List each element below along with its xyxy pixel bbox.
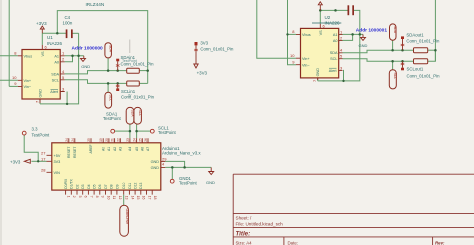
svg-text:A7: A7	[146, 147, 150, 151]
svg-text:25: 25	[138, 138, 142, 142]
svg-text:Vin−: Vin−	[302, 64, 310, 68]
svg-text:Vbus: Vbus	[24, 54, 33, 58]
svg-text:Conn_01x01_Pin: Conn_01x01_Pin	[121, 94, 155, 99]
svg-text:SDA: SDA	[393, 26, 397, 34]
svg-text:22: 22	[116, 138, 120, 142]
svg-text:Addr 1000000: Addr 1000000	[72, 45, 104, 51]
svg-text:Title:: Title:	[236, 230, 251, 237]
svg-text:5: 5	[78, 196, 82, 198]
svg-text:D3: D3	[81, 184, 85, 188]
svg-text:14: 14	[130, 196, 134, 200]
svg-text:Conn_01x01_Pin: Conn_01x01_Pin	[200, 47, 234, 52]
svg-text:SCLout1: SCLout1	[407, 66, 424, 71]
svg-text:SDA: SDA	[109, 45, 113, 53]
svg-text:A5: A5	[135, 147, 139, 151]
svg-text:A0: A0	[101, 147, 105, 151]
svg-text:TestPoint: TestPoint	[103, 116, 121, 121]
svg-text:17: 17	[41, 156, 46, 161]
svg-text:GND: GND	[81, 64, 90, 69]
svg-text:A1: A1	[333, 33, 338, 37]
svg-text:Vin+: Vin+	[24, 79, 32, 83]
svg-text:10: 10	[12, 75, 17, 80]
svg-text:TestPoint: TestPoint	[158, 130, 176, 135]
svg-text:D2: D2	[75, 184, 79, 188]
svg-text:D10: D10	[122, 182, 126, 188]
svg-text:SCL: SCL	[330, 57, 337, 61]
svg-text:C4: C4	[65, 15, 71, 20]
svg-text:23: 23	[126, 138, 130, 142]
svg-text:D0/RX: D0/RX	[64, 178, 68, 189]
svg-text:SDA: SDA	[51, 73, 59, 77]
svg-text:Conn_01x01_Pin: Conn_01x01_Pin	[407, 74, 441, 79]
svg-text:SDA: SDA	[330, 51, 338, 55]
svg-text:16: 16	[142, 196, 146, 200]
svg-text:GND: GND	[151, 166, 160, 170]
svg-text:Conn_01x01_Pin: Conn_01x01_Pin	[121, 61, 155, 66]
svg-text:D9: D9	[115, 184, 119, 188]
svg-text:A6: A6	[141, 147, 145, 151]
svg-text:VS: VS	[319, 30, 323, 36]
svg-text:SCL: SCL	[393, 73, 397, 80]
svg-text:D11: D11	[128, 183, 132, 189]
svg-text:+3V3: +3V3	[10, 159, 21, 164]
svg-text:D1/TX: D1/TX	[70, 178, 74, 188]
svg-text:12: 12	[118, 196, 122, 200]
svg-text:U2: U2	[325, 15, 331, 20]
svg-text:18: 18	[153, 196, 157, 200]
svg-text:Vin+: Vin+	[302, 57, 310, 61]
svg-text:24: 24	[133, 138, 137, 142]
svg-text:100n: 100n	[63, 20, 73, 25]
svg-text:Vbus: Vbus	[302, 33, 311, 37]
svg-text:D5: D5	[93, 184, 97, 188]
svg-text:24: 24	[71, 138, 75, 142]
svg-text:2: 2	[72, 196, 76, 198]
svg-text:TestPoint: TestPoint	[179, 181, 197, 186]
svg-text:Conn_01x01_Pin: Conn_01x01_Pin	[406, 39, 440, 44]
svg-text:A0: A0	[54, 61, 59, 65]
svg-text:A1: A1	[107, 147, 111, 151]
svg-text:26: 26	[144, 138, 148, 142]
svg-text:Vin−: Vin−	[24, 85, 32, 89]
svg-text:3.3: 3.3	[32, 126, 39, 131]
svg-text:24: 24	[65, 138, 69, 142]
svg-text:D13: D13	[139, 182, 143, 188]
svg-text:A1: A1	[54, 55, 59, 59]
svg-text:25: 25	[87, 138, 91, 142]
svg-text:VIN: VIN	[54, 171, 61, 175]
svg-text:IRLZ44N: IRLZ44N	[86, 2, 105, 7]
svg-text:7: 7	[89, 196, 93, 198]
svg-text:GND: GND	[359, 43, 368, 48]
svg-text:13: 13	[125, 196, 129, 200]
svg-text:Rev:: Rev:	[435, 240, 445, 245]
svg-text:28: 28	[41, 167, 46, 172]
svg-text:SCL: SCL	[109, 95, 113, 102]
svg-text:D7: D7	[104, 184, 108, 188]
svg-text:15: 15	[136, 196, 140, 200]
svg-text:INA226: INA226	[47, 41, 63, 46]
svg-text:10: 10	[290, 53, 295, 58]
svg-text:GND: GND	[206, 180, 215, 185]
svg-text:Sheet: /: Sheet: /	[236, 215, 253, 220]
svg-text:3V3: 3V3	[200, 41, 208, 46]
svg-text:27: 27	[41, 150, 46, 155]
svg-text:+3V3: +3V3	[197, 70, 208, 75]
svg-text:11: 11	[112, 196, 116, 200]
svg-text:+3V3: +3V3	[36, 21, 47, 26]
svg-text:GND: GND	[151, 160, 160, 164]
svg-text:A0: A0	[333, 39, 338, 43]
svg-text:8: 8	[95, 196, 99, 198]
svg-text:File: Untitled.kicad_sch: File: Untitled.kicad_sch	[236, 222, 284, 227]
svg-text:D12: D12	[134, 182, 138, 188]
svg-text:3V3: 3V3	[54, 160, 61, 164]
svg-text:GateDrive: GateDrive	[125, 209, 129, 225]
svg-text:SDAout1: SDAout1	[406, 32, 424, 37]
svg-text:A4: A4	[128, 147, 132, 151]
svg-text:+5V: +5V	[54, 154, 61, 158]
svg-text:VS: VS	[41, 51, 45, 57]
svg-text:SCL: SCL	[138, 110, 142, 117]
svg-text:RESET: RESET	[67, 147, 71, 158]
svg-text:U1: U1	[47, 35, 53, 40]
svg-text:Arduino_Nano_v3.x: Arduino_Nano_v3.x	[162, 151, 201, 156]
svg-text:Size: A4: Size: A4	[236, 240, 253, 245]
svg-text:GND: GND	[316, 68, 320, 77]
svg-text:D6: D6	[98, 184, 102, 188]
svg-text:1: 1	[67, 196, 71, 198]
svg-text:Alert: Alert	[329, 69, 338, 73]
svg-text:17: 17	[147, 196, 151, 200]
svg-text:20: 20	[105, 138, 109, 142]
svg-text:Date:: Date:	[288, 240, 299, 245]
svg-text:9: 9	[101, 196, 105, 198]
svg-text:19: 19	[99, 138, 103, 142]
svg-text:A2: A2	[113, 147, 117, 151]
svg-text:Alert: Alert	[50, 90, 59, 94]
svg-text:21: 21	[111, 138, 115, 142]
svg-text:D8: D8	[110, 184, 114, 188]
svg-text:6: 6	[84, 196, 88, 198]
svg-text:D4: D4	[87, 184, 91, 188]
svg-text:Addr 1000001: Addr 1000001	[356, 28, 388, 34]
svg-text:A3: A3	[119, 147, 123, 151]
svg-text:AREF: AREF	[89, 144, 93, 153]
svg-text:10: 10	[106, 196, 110, 200]
svg-text:RESET: RESET	[73, 147, 77, 158]
svg-text:SCL: SCL	[52, 78, 59, 82]
svg-text:TestPoint: TestPoint	[32, 133, 50, 138]
svg-text:GND: GND	[39, 89, 43, 98]
